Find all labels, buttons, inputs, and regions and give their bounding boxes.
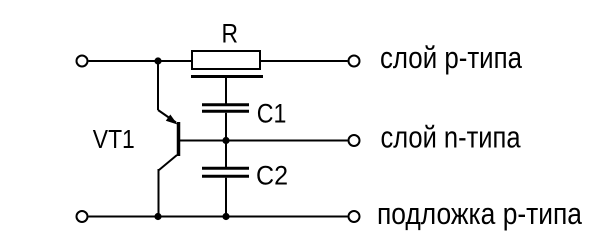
wire: stub middle rail to C2 (225, 141, 227, 167)
svg-text:слой p-типа: слой p-типа (380, 40, 523, 75)
terminal: middle-right (349, 135, 360, 146)
node: bottom junction dot right (222, 213, 229, 220)
svg-text:VT1: VT1 (93, 124, 135, 154)
wire: stub plate to C1 (225, 78, 227, 104)
svg-text:C1: C1 (257, 98, 287, 128)
wire: top rail right segment (261, 60, 348, 62)
terminal: bottom-left (77, 211, 88, 222)
terminal: bottom-right (349, 211, 360, 222)
base bar (177, 122, 181, 156)
terminal: top-right (349, 56, 360, 67)
wire: stub C2 to bottom rail (225, 178, 227, 217)
svg-text:подложка р-типа: подложка р-типа (377, 196, 583, 231)
node: top junction dot (154, 57, 161, 64)
capacitor C2 (202, 167, 249, 170)
svg-text:слой n-типа: слой n-типа (381, 120, 522, 155)
wire: collector vertical from top rail (157, 61, 159, 110)
node: bottom junction dot left (154, 213, 161, 220)
wire: stub C1 to middle rail (225, 113, 227, 141)
wire: vertical to bottom rail (158, 169, 160, 217)
distributed plate under resistor (191, 75, 263, 78)
collector diagonal (159, 155, 177, 170)
wire: bottom rail (89, 216, 348, 218)
svg-text:C2: C2 (256, 161, 288, 191)
terminal: top-left (77, 56, 88, 67)
emitter diagonal with arrow (158, 110, 176, 123)
node: middle junction dot (222, 137, 229, 144)
capacitor C1 (202, 103, 249, 106)
svg-text:R: R (222, 19, 239, 49)
wire: top rail left segment (89, 60, 192, 62)
transistor VT1 (158, 61, 179, 217)
wire: middle rail (180, 140, 348, 142)
resistor R (192, 51, 260, 69)
